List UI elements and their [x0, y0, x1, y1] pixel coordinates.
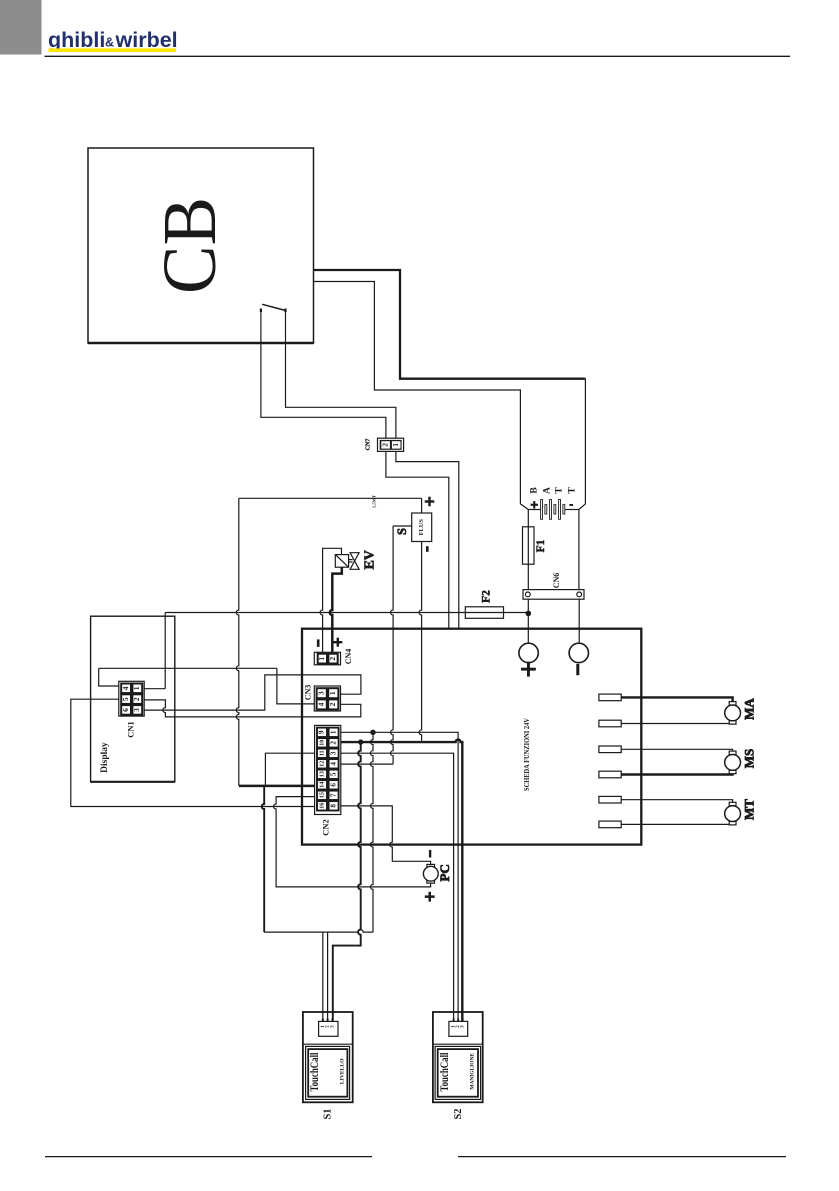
svg-text:5: 5: [329, 772, 337, 776]
svg-text:1: 1: [132, 686, 141, 690]
svg-text:EV: EV: [363, 550, 378, 569]
connector CN3: [314, 686, 340, 711]
svg-text:14: 14: [318, 782, 325, 788]
wire CN2 pin2 to S2 right (thick): [341, 740, 463, 1022]
svg-text:13: 13: [318, 771, 325, 777]
svg-text:4: 4: [121, 686, 130, 690]
net P branch horizontal: [99, 667, 277, 669]
net P to CN1 pin1: [144, 688, 165, 690]
svg-text:TouchCall: TouchCall: [439, 1053, 451, 1092]
svg-text:MA: MA: [741, 698, 756, 720]
PC minus sign: [429, 850, 431, 858]
wire CN2 pin2 thick dropper to S1 pin3: [333, 742, 361, 1021]
svg-text:MANIGLIONE: MANIGLIONE: [469, 1053, 475, 1090]
wire S1 pin1 drop: [322, 932, 324, 1021]
wire CN2 pin3 to S2 left: [341, 753, 454, 1021]
wire CN1 pin5 to CN2 pin16: [71, 699, 315, 806]
battery plus sign: [531, 501, 538, 508]
wire CN6 to minus terminal: [578, 599, 580, 643]
wire CN7 pin1 to board: [396, 451, 459, 628]
connector CN1: [119, 681, 144, 716]
svg-text:MS: MS: [741, 749, 756, 769]
svg-text:2: 2: [132, 697, 141, 701]
wire CN1 pin3 to CN3 pin1: [144, 675, 361, 710]
TouchCall sensor S1: [303, 1012, 353, 1102]
wire flow sensor plus: [239, 497, 422, 499]
wire CN2 pin11: [265, 753, 314, 786]
svg-text:TouchCall: TouchCall: [309, 1053, 321, 1092]
board terminal plus circle: [519, 643, 538, 662]
svg-text:1: 1: [328, 691, 337, 695]
output pads on board: [599, 694, 621, 828]
wire EV top to CN4 pin1: [320, 548, 341, 652]
flow sensor FLUS plus sign: [425, 497, 435, 507]
wire F2 to junction: [504, 612, 529, 614]
svg-text:16: 16: [318, 803, 325, 809]
svg-text:1: 1: [329, 730, 337, 734]
wire FLUS S lead: [393, 525, 412, 527]
header rule: [45, 55, 791, 57]
logo ghibli & wirbel: [48, 28, 178, 52]
TouchCall sensor S2: [433, 1012, 483, 1102]
wire FLUS minus down to CN2 pin2 net (with hops): [419, 542, 422, 743]
wire F1 to CN6: [527, 564, 529, 589]
S1 ground horizontal: [264, 930, 373, 933]
junction dot CN2 pin1 net: [370, 730, 375, 735]
board SCHEDA FUNZIONI 24V: [302, 629, 641, 845]
svg-text:CB: CB: [148, 197, 232, 294]
svg-text:CN2: CN2: [321, 819, 331, 836]
net P to CN1 pin4: [99, 668, 119, 686]
wire FLUS plus riser (with hops): [236, 498, 238, 786]
motor PC: [423, 864, 438, 883]
solenoid valve EV coil box: [335, 553, 359, 570]
wire CN2 pin1 dropper to S1 net (with hops): [371, 732, 374, 932]
PC plus sign: [425, 892, 435, 902]
Display box: [91, 616, 175, 782]
svg-text:6: 6: [121, 708, 130, 712]
svg-text:2: 2: [328, 702, 337, 706]
wire FLUS S down to CN2 pin4 (with hops): [391, 526, 394, 764]
svg-text:F1: F1: [535, 539, 547, 552]
battery minus sign: [569, 504, 573, 506]
connector CN2: [315, 725, 341, 814]
svg-text:FLUS: FLUS: [418, 519, 425, 536]
junction dot CN2 pin2 net: [358, 739, 363, 744]
svg-text:Display: Display: [100, 742, 110, 773]
footer line left: [45, 1156, 372, 1158]
svg-text:4: 4: [329, 762, 337, 766]
svg-text:2: 2: [329, 741, 337, 745]
flow sensor FLUS minus sign: [426, 546, 429, 552]
svg-text:3: 3: [132, 708, 141, 712]
svg-text:CN4: CN4: [344, 649, 353, 665]
svg-text:1: 1: [317, 657, 326, 661]
svg-text:A: A: [543, 487, 553, 494]
flow sensor FLUS box: [412, 513, 432, 542]
battery chamfers and plate rails: [520, 504, 528, 510]
CN4 minus sign: [317, 639, 320, 647]
wire pad3 to motor MS: [621, 749, 732, 751]
svg-text:&: &: [105, 36, 114, 50]
svg-text:2: 2: [380, 443, 389, 447]
svg-text:3: 3: [317, 691, 326, 695]
wire CN2 pin14 thick: [239, 785, 315, 788]
svg-text:5: 5: [121, 697, 130, 701]
wire thick net to S1 horizontal: [262, 786, 265, 932]
svg-text:PC: PC: [437, 864, 452, 881]
wire EV bottom to CN4 pin2 (thick): [330, 567, 342, 652]
svg-text:4: 4: [317, 702, 326, 706]
wire CN2 pin15 to PC plus: [274, 797, 431, 887]
svg-text:3: 3: [329, 751, 337, 755]
connector CN7: [378, 438, 404, 451]
svg-text:B: B: [530, 487, 540, 494]
left harness: net P vertical from long wire: [164, 613, 166, 689]
wire CB to battery minus (thick): [314, 270, 586, 379]
battery cells: [541, 500, 565, 520]
wire pad6 to motor MT: [621, 823, 732, 826]
junction dot battery plus / F2: [526, 611, 532, 617]
motor MT: [725, 802, 741, 825]
CN4 plus sign: [333, 638, 342, 647]
svg-text:S1: S1: [323, 1108, 334, 1119]
CB box: [88, 148, 314, 343]
fuse F1: [523, 527, 535, 564]
CN2 cells: [317, 728, 339, 811]
fuse F2: [465, 607, 503, 619]
wire CN2 pin8 to PC minus: [341, 806, 431, 865]
svg-text:F2: F2: [481, 590, 493, 603]
wire CN6 to plus terminal: [527, 599, 529, 643]
wire pad4 to motor MS (thick): [621, 773, 732, 776]
wire S1 pin2 drop: [327, 932, 329, 1021]
svg-text:7: 7: [329, 793, 337, 797]
motor MA: [725, 702, 741, 725]
svg-text:9: 9: [318, 730, 326, 734]
svg-text:CN6: CN6: [552, 573, 561, 589]
svg-text:1,5MT: 1,5MT: [372, 495, 377, 508]
wire CN7 pin2 to board: [386, 451, 449, 628]
EV valve bowtie: [350, 553, 359, 561]
wire pad2 to motor MA minus: [621, 723, 732, 726]
switch inside CB: [262, 304, 286, 310]
connector CN4: [314, 652, 340, 665]
svg-text:LIVELLO: LIVELLO: [339, 1058, 345, 1084]
svg-text:S: S: [395, 528, 409, 535]
header gray block: [0, 0, 42, 55]
board terminal minus circle: [569, 643, 588, 662]
svg-text:1: 1: [391, 443, 400, 447]
wire CN2 pin4 to flow sensor: [341, 763, 393, 765]
wire switch left to CN7 pin2: [261, 311, 386, 438]
svg-text:2: 2: [328, 657, 337, 661]
svg-text:SCHEDA FUNZIONI 24V: SCHEDA FUNZIONI 24V: [524, 718, 531, 791]
svg-text:10: 10: [318, 740, 325, 746]
wire CN1 pin2 to CN3 pin2: [144, 700, 361, 717]
motor MS: [725, 751, 741, 774]
long supply wire to F2: [165, 612, 465, 614]
svg-text:12: 12: [318, 761, 325, 767]
wire CB to battery plus: [314, 282, 521, 504]
footer line right: [458, 1156, 786, 1158]
svg-text:6: 6: [329, 783, 337, 787]
svg-text:CN1: CN1: [126, 721, 136, 738]
wire pad5 to motor MT: [621, 800, 732, 803]
svg-text:MT: MT: [741, 799, 756, 820]
svg-text:CN7: CN7: [366, 439, 372, 451]
svg-text:T: T: [568, 487, 578, 494]
net P to CN3 pin4: [277, 668, 314, 704]
svg-text:T: T: [555, 487, 565, 494]
svg-text:8: 8: [329, 804, 337, 808]
wire CN2 pin1 to S2 mid: [341, 732, 458, 1021]
connector CN6: [523, 590, 584, 600]
battery BATT label: [530, 487, 578, 494]
svg-text:11: 11: [318, 750, 325, 756]
wire pad1 to motor MA plus (thick): [621, 697, 732, 701]
svg-text:CN3: CN3: [304, 685, 313, 701]
wire switch right to CN7 pin1: [286, 311, 396, 438]
svg-text:15: 15: [318, 792, 325, 798]
svg-text:S2: S2: [453, 1108, 464, 1119]
